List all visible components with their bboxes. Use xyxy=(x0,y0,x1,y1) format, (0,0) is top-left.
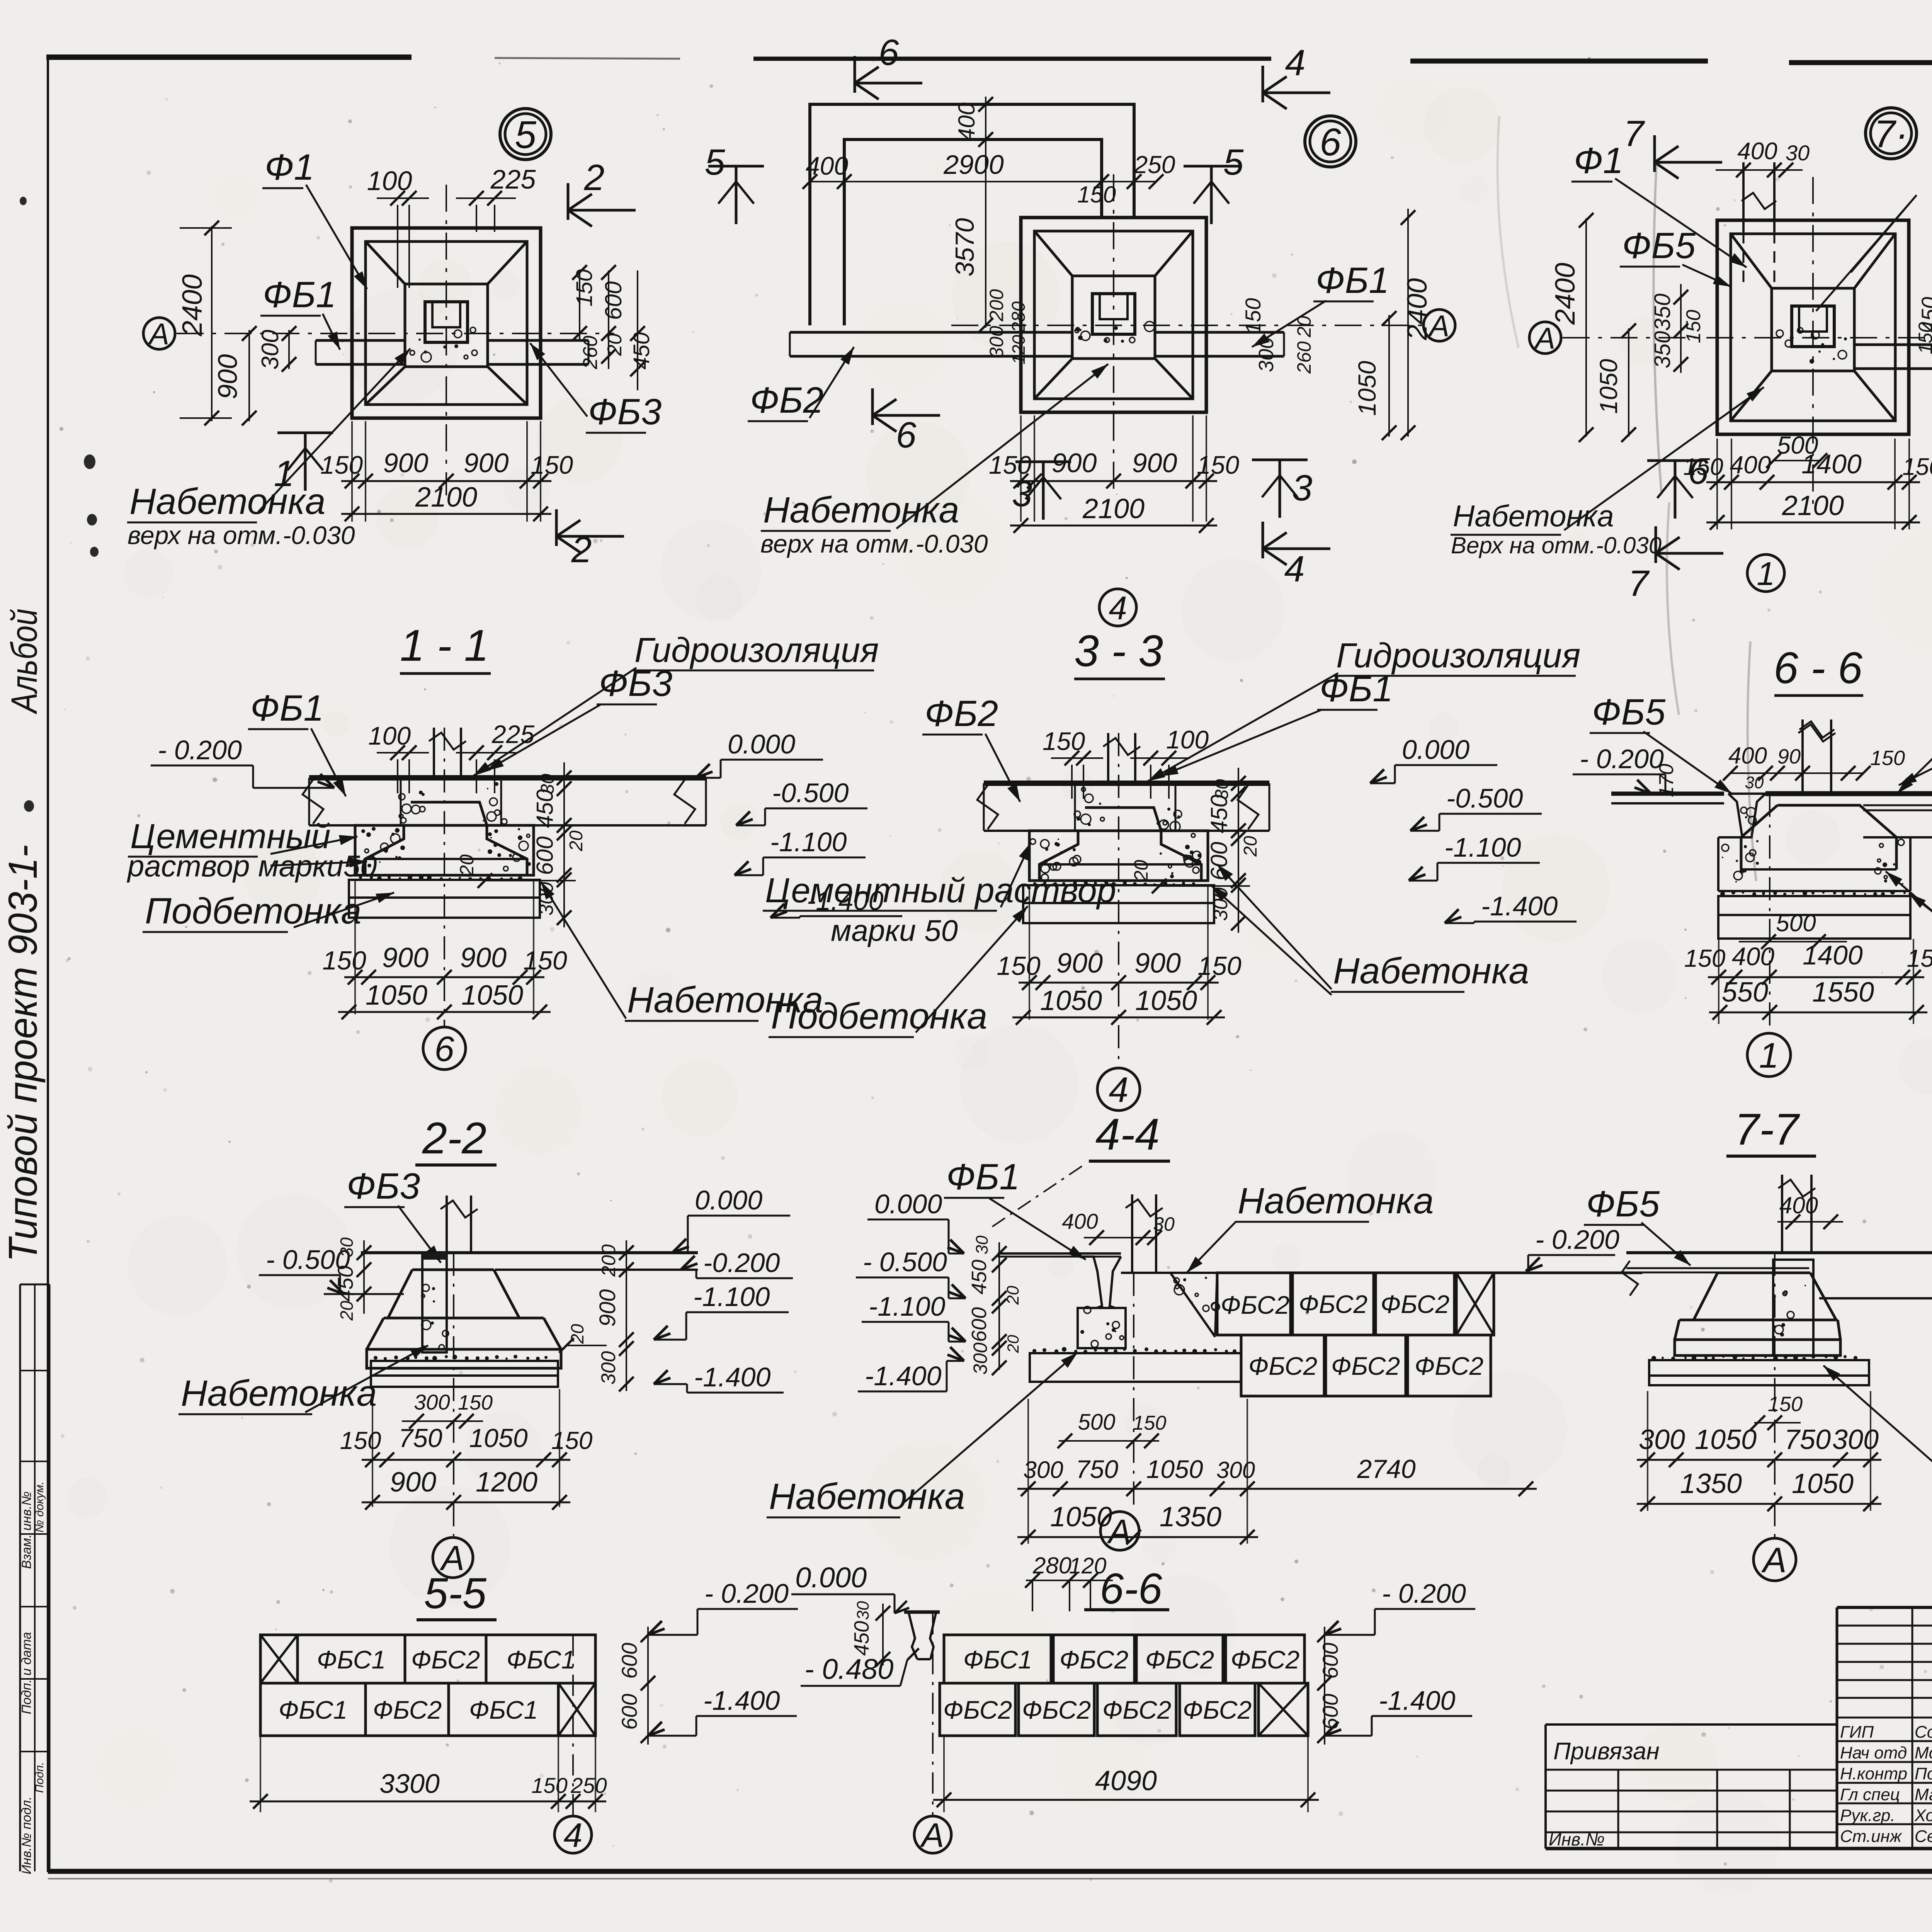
svg-text:6-6: 6-6 xyxy=(1100,1565,1163,1613)
svg-text:Подп.: Подп. xyxy=(33,1762,46,1793)
svg-text:400: 400 xyxy=(1732,942,1774,971)
svg-text:2400: 2400 xyxy=(1402,278,1433,340)
svg-text:Набетонка: Набетонка xyxy=(1453,499,1614,533)
svg-text:ФБС2: ФБС2 xyxy=(943,1696,1012,1724)
svg-text:150: 150 xyxy=(523,946,567,975)
svg-text:20: 20 xyxy=(1004,1335,1022,1353)
svg-text:150: 150 xyxy=(1241,298,1265,334)
svg-text:400: 400 xyxy=(1737,138,1777,165)
svg-text:-0.200: -0.200 xyxy=(703,1248,780,1278)
svg-text:30: 30 xyxy=(1786,141,1810,165)
svg-text:ФБС2: ФБС2 xyxy=(1415,1352,1483,1380)
svg-text:ФБС2: ФБС2 xyxy=(1022,1696,1091,1724)
svg-text:ФБ2: ФБ2 xyxy=(925,693,998,734)
svg-text:Набетонка: Набетонка xyxy=(763,490,959,531)
svg-text:6: 6 xyxy=(879,32,899,73)
svg-text:150: 150 xyxy=(1043,727,1085,755)
svg-text:6: 6 xyxy=(896,415,917,456)
svg-text:500: 500 xyxy=(1078,1410,1116,1435)
svg-text:Нач отд: Нач отд xyxy=(1840,1743,1907,1762)
svg-text:- 0.200: - 0.200 xyxy=(158,735,242,765)
svg-text:Подп. и дата: Подп. и дата xyxy=(19,1632,34,1714)
svg-text:2100: 2100 xyxy=(1782,490,1844,521)
svg-text:600: 600 xyxy=(600,281,626,320)
svg-text:900: 900 xyxy=(460,942,507,973)
svg-text:- 0.200: - 0.200 xyxy=(1382,1578,1466,1609)
svg-text:450: 450 xyxy=(968,1260,991,1294)
svg-text:2: 2 xyxy=(584,157,605,198)
svg-text:900: 900 xyxy=(1132,448,1177,478)
svg-text:-1.400: -1.400 xyxy=(694,1362,771,1392)
svg-text:6: 6 xyxy=(1320,121,1341,164)
svg-text:2: 2 xyxy=(571,529,592,570)
svg-text:20: 20 xyxy=(456,854,478,876)
svg-text:-1.100: -1.100 xyxy=(1444,832,1521,862)
svg-text:6 - 6: 6 - 6 xyxy=(1774,643,1862,693)
svg-text:1050: 1050 xyxy=(366,980,427,1011)
svg-text:500: 500 xyxy=(1776,910,1816,937)
svg-text:0.000: 0.000 xyxy=(695,1185,762,1215)
svg-text:Гидроизоляция: Гидроизоляция xyxy=(634,631,879,670)
svg-text:верх на отм.-0.030: верх на отм.-0.030 xyxy=(128,521,355,549)
svg-text:900: 900 xyxy=(383,448,429,478)
svg-text:ФБС2: ФБС2 xyxy=(1331,1352,1400,1380)
svg-text:Типовой проект 903-1-: Типовой проект 903-1- xyxy=(0,845,46,1262)
svg-text:ФБ5: ФБ5 xyxy=(1622,225,1696,266)
svg-text:0.000: 0.000 xyxy=(795,1561,867,1594)
svg-text:600: 600 xyxy=(1318,1643,1342,1679)
svg-text:2-2: 2-2 xyxy=(422,1114,486,1163)
svg-text:ФБС1: ФБС1 xyxy=(507,1645,575,1674)
svg-text:90: 90 xyxy=(1777,745,1801,768)
svg-text:450: 450 xyxy=(532,789,558,828)
svg-text:Холодова: Холодова xyxy=(1914,1806,1932,1825)
svg-text:3: 3 xyxy=(1292,468,1313,509)
svg-text:150: 150 xyxy=(320,451,363,479)
svg-text:Погорельск: Погорельск xyxy=(1915,1764,1932,1783)
svg-text:30: 30 xyxy=(337,1237,357,1257)
svg-text:150: 150 xyxy=(1133,1412,1167,1434)
svg-text:300: 300 xyxy=(986,326,1007,358)
svg-text:№ докум.: № докум. xyxy=(33,1481,46,1532)
svg-text:450: 450 xyxy=(629,332,654,370)
svg-text:А: А xyxy=(148,317,169,351)
svg-text:150: 150 xyxy=(1684,944,1726,972)
svg-text:5: 5 xyxy=(515,113,536,156)
svg-text:400: 400 xyxy=(1062,1209,1098,1233)
svg-text:600: 600 xyxy=(617,1694,641,1730)
svg-text:ФБС2: ФБС2 xyxy=(373,1696,442,1724)
svg-text:1350: 1350 xyxy=(1680,1468,1742,1499)
svg-text:- 0.200: - 0.200 xyxy=(1535,1225,1619,1255)
svg-text:260: 260 xyxy=(579,336,602,370)
svg-text:30: 30 xyxy=(854,1601,872,1620)
svg-text:20: 20 xyxy=(604,333,626,356)
svg-text:-0.500: -0.500 xyxy=(772,778,849,808)
svg-text:400: 400 xyxy=(1730,451,1771,479)
svg-text:0.000: 0.000 xyxy=(874,1189,942,1219)
svg-text:4: 4 xyxy=(1284,549,1305,590)
svg-text:Инв.№: Инв.№ xyxy=(1549,1829,1605,1849)
svg-text:250: 250 xyxy=(570,1773,607,1798)
svg-text:20: 20 xyxy=(566,830,587,852)
svg-text:750: 750 xyxy=(1784,1424,1831,1455)
svg-text:1050: 1050 xyxy=(1135,985,1197,1016)
svg-text:150: 150 xyxy=(531,1773,567,1798)
svg-text:Гидроизоляция: Гидроизоляция xyxy=(1336,636,1580,675)
svg-text:1050: 1050 xyxy=(1050,1502,1112,1532)
svg-text:20: 20 xyxy=(1240,836,1261,857)
svg-text:Инв.№ подл.: Инв.№ подл. xyxy=(19,1796,34,1874)
svg-text:300: 300 xyxy=(597,1351,620,1385)
svg-text:20: 20 xyxy=(337,1301,357,1321)
svg-text:150: 150 xyxy=(1197,951,1242,981)
svg-text:400: 400 xyxy=(954,102,980,141)
svg-text:ФБ3: ФБ3 xyxy=(347,1166,420,1207)
svg-text:ФБС2: ФБС2 xyxy=(411,1645,480,1674)
svg-text:ФБ1: ФБ1 xyxy=(946,1156,1020,1197)
svg-text:ФБС2: ФБС2 xyxy=(1145,1645,1214,1674)
svg-text:150: 150 xyxy=(531,451,573,479)
svg-text:150: 150 xyxy=(1915,322,1932,354)
svg-text:300: 300 xyxy=(1639,1424,1685,1455)
svg-text:5: 5 xyxy=(705,142,726,183)
svg-text:4: 4 xyxy=(564,1816,583,1854)
svg-text:550: 550 xyxy=(1722,977,1768,1008)
svg-text:150: 150 xyxy=(572,269,597,307)
svg-text:Альбой: Альбой xyxy=(4,609,45,714)
svg-text:2400: 2400 xyxy=(1550,263,1581,325)
svg-text:5: 5 xyxy=(1223,142,1244,183)
svg-text:ФБС2: ФБС2 xyxy=(1248,1352,1317,1380)
svg-text:150: 150 xyxy=(551,1427,593,1454)
svg-text:4: 4 xyxy=(1109,590,1127,627)
svg-text:150: 150 xyxy=(1870,747,1905,770)
svg-text:Верх на отм.-0.030: Верх на отм.-0.030 xyxy=(1451,532,1662,558)
svg-text:А: А xyxy=(920,1816,944,1854)
svg-text:225: 225 xyxy=(492,720,534,748)
svg-text:1050: 1050 xyxy=(1595,359,1622,414)
svg-text:ФБ1: ФБ1 xyxy=(263,274,336,315)
svg-text:900: 900 xyxy=(382,942,429,973)
svg-text:ФБС2: ФБС2 xyxy=(1381,1290,1449,1318)
svg-text:ФБС1: ФБС1 xyxy=(279,1696,347,1724)
svg-text:Привязан: Привязан xyxy=(1553,1738,1660,1765)
svg-text:ФБС1: ФБС1 xyxy=(317,1645,386,1674)
svg-text:1550: 1550 xyxy=(1812,977,1874,1008)
svg-text:150: 150 xyxy=(1902,454,1932,480)
svg-text:Взам. инв.№: Взам. инв.№ xyxy=(19,1492,34,1569)
svg-text:1050: 1050 xyxy=(469,1423,527,1453)
svg-text:900: 900 xyxy=(464,448,509,478)
svg-text:марки 50: марки 50 xyxy=(831,913,958,947)
svg-text:280: 280 xyxy=(1009,301,1029,333)
svg-text:200: 200 xyxy=(986,289,1007,322)
svg-text:600: 600 xyxy=(532,836,558,875)
svg-text:1400: 1400 xyxy=(1803,940,1863,970)
svg-text:1050: 1050 xyxy=(461,980,523,1011)
svg-text:120: 120 xyxy=(1009,335,1029,364)
svg-text:Набетонка: Набетонка xyxy=(1238,1180,1434,1221)
svg-text:раствор марки50: раствор марки50 xyxy=(127,849,377,883)
svg-text:450: 450 xyxy=(333,1265,357,1301)
svg-text:ФБС2: ФБС2 xyxy=(1231,1645,1299,1674)
svg-text:4-4: 4-4 xyxy=(1095,1110,1160,1159)
svg-text:1200: 1200 xyxy=(476,1467,537,1498)
svg-text:А: А xyxy=(1761,1541,1786,1580)
svg-text:Ст.инж: Ст.инж xyxy=(1840,1827,1902,1846)
svg-text:6: 6 xyxy=(434,1029,454,1069)
svg-text:Рук.гр.: Рук.гр. xyxy=(1840,1806,1895,1825)
svg-text:Ф1: Ф1 xyxy=(1574,140,1623,181)
svg-text:300: 300 xyxy=(1216,1457,1255,1483)
svg-text:ФБ5: ФБ5 xyxy=(1586,1184,1660,1225)
svg-text:- 0.200: - 0.200 xyxy=(704,1578,789,1609)
svg-text:1350: 1350 xyxy=(1160,1502,1221,1532)
svg-text:- 0.200: - 0.200 xyxy=(1580,744,1664,774)
svg-text:150: 150 xyxy=(1197,451,1239,479)
svg-text:100: 100 xyxy=(367,166,412,196)
svg-text:20: 20 xyxy=(1130,860,1152,882)
svg-text:900: 900 xyxy=(1134,948,1181,979)
svg-text:300: 300 xyxy=(1023,1457,1063,1483)
svg-text:1050: 1050 xyxy=(1040,985,1102,1016)
svg-text:-1.100: -1.100 xyxy=(770,827,847,857)
svg-text:7: 7 xyxy=(1628,563,1650,604)
svg-text:3570: 3570 xyxy=(950,218,980,276)
svg-text:-0.500: -0.500 xyxy=(1446,783,1523,813)
svg-text:600: 600 xyxy=(617,1643,641,1679)
svg-text:ФБС2: ФБС2 xyxy=(1102,1696,1171,1724)
svg-text:Набетонка: Набетонка xyxy=(181,1373,377,1414)
svg-text:30: 30 xyxy=(973,1235,992,1254)
svg-text:Марков: Марков xyxy=(1915,1785,1932,1804)
svg-text:2900: 2900 xyxy=(943,150,1004,180)
svg-text:150: 150 xyxy=(1682,310,1705,344)
svg-text:Сенягина: Сенягина xyxy=(1915,1827,1932,1846)
svg-text:А: А xyxy=(1107,1512,1131,1551)
svg-text:300: 300 xyxy=(1832,1424,1879,1455)
svg-text:200: 200 xyxy=(598,1244,619,1277)
svg-text:450: 450 xyxy=(850,1621,873,1656)
svg-text:-1.400: -1.400 xyxy=(1481,891,1558,921)
svg-text:верх на отм.-0.030: верх на отм.-0.030 xyxy=(760,529,988,558)
svg-text:300: 300 xyxy=(969,1342,991,1375)
svg-text:0.000: 0.000 xyxy=(1402,735,1469,765)
svg-text:ФБ1: ФБ1 xyxy=(250,688,324,729)
svg-text:2100: 2100 xyxy=(1082,493,1145,524)
svg-text:2100: 2100 xyxy=(415,482,477,513)
svg-text:1: 1 xyxy=(1759,1036,1779,1075)
svg-text:150: 150 xyxy=(1077,182,1116,207)
svg-text:250: 250 xyxy=(1134,151,1175,179)
svg-text:150: 150 xyxy=(1907,944,1932,972)
svg-text:300: 300 xyxy=(257,330,284,369)
svg-text:Набетонка: Набетонка xyxy=(1333,951,1529,992)
svg-text:30: 30 xyxy=(1153,1213,1175,1235)
svg-text:600: 600 xyxy=(968,1307,991,1342)
svg-text:ФБС2: ФБС2 xyxy=(1299,1290,1367,1318)
svg-text:1050: 1050 xyxy=(1792,1468,1854,1499)
svg-text:5-5: 5-5 xyxy=(424,1569,487,1617)
svg-text:750: 750 xyxy=(1076,1455,1118,1483)
svg-text:ФБС1: ФБС1 xyxy=(963,1645,1032,1674)
svg-text:-1.400: -1.400 xyxy=(703,1685,780,1716)
svg-text:4: 4 xyxy=(1285,43,1306,83)
svg-text:225: 225 xyxy=(490,164,536,194)
svg-text:300: 300 xyxy=(414,1390,450,1414)
svg-text:1: 1 xyxy=(1757,556,1775,592)
svg-text:Соловьев: Соловьев xyxy=(1915,1723,1932,1742)
svg-text:Морунов: Морунов xyxy=(1915,1743,1932,1762)
svg-text:2740: 2740 xyxy=(1357,1454,1415,1484)
svg-text:7-7: 7-7 xyxy=(1735,1105,1800,1154)
svg-text:Цементный раствор: Цементный раствор xyxy=(765,871,1116,910)
svg-text:450: 450 xyxy=(1206,794,1232,833)
svg-text:ФБ5: ФБ5 xyxy=(1592,692,1666,733)
svg-text:-1.100: -1.100 xyxy=(693,1282,770,1312)
svg-text:4: 4 xyxy=(1109,1070,1128,1110)
svg-text:1050: 1050 xyxy=(1695,1424,1757,1455)
svg-text:900: 900 xyxy=(213,354,243,400)
svg-text:3 - 3: 3 - 3 xyxy=(1074,626,1163,676)
svg-text:ФБС2: ФБС2 xyxy=(1183,1696,1252,1724)
svg-text:400: 400 xyxy=(806,151,848,180)
svg-text:100: 100 xyxy=(368,721,411,750)
svg-text:150: 150 xyxy=(340,1427,381,1454)
svg-text:900: 900 xyxy=(1056,948,1103,979)
svg-text:ФБС2: ФБС2 xyxy=(1221,1291,1289,1319)
svg-text:4090: 4090 xyxy=(1095,1765,1157,1796)
svg-text:600: 600 xyxy=(1318,1694,1342,1730)
svg-text:ФБ3: ФБ3 xyxy=(588,391,662,432)
svg-text:1400: 1400 xyxy=(1801,449,1862,479)
svg-text:ФБ1: ФБ1 xyxy=(1316,260,1389,301)
svg-text:150: 150 xyxy=(458,1391,493,1414)
svg-text:0.000: 0.000 xyxy=(728,729,795,759)
svg-text:-1.400: -1.400 xyxy=(865,1361,942,1391)
svg-text:-1.100: -1.100 xyxy=(869,1291,946,1321)
svg-text:1050: 1050 xyxy=(1146,1455,1203,1483)
svg-text:ФБС1: ФБС1 xyxy=(469,1696,538,1724)
svg-text:Подбетонка: Подбетонка xyxy=(145,891,361,932)
svg-text:150: 150 xyxy=(997,951,1041,981)
svg-text:7·: 7· xyxy=(1874,112,1908,156)
svg-text:170: 170 xyxy=(1655,764,1678,798)
svg-text:Гл спец: Гл спец xyxy=(1840,1785,1900,1804)
svg-text:-1.400: -1.400 xyxy=(1379,1685,1456,1716)
svg-text:900: 900 xyxy=(390,1467,436,1498)
svg-text:150: 150 xyxy=(322,946,366,975)
svg-text:7: 7 xyxy=(1624,113,1645,154)
svg-text:Набетонка: Набетонка xyxy=(129,481,326,522)
svg-text:ФБС2: ФБС2 xyxy=(1060,1645,1128,1674)
svg-text:2400: 2400 xyxy=(177,274,208,337)
svg-text:- 0.500: - 0.500 xyxy=(863,1247,947,1277)
svg-text:750: 750 xyxy=(398,1423,442,1453)
svg-text:1 - 1: 1 - 1 xyxy=(400,621,489,670)
svg-text:1050: 1050 xyxy=(1353,361,1381,416)
svg-text:3: 3 xyxy=(1012,473,1032,514)
svg-text:ГИП: ГИП xyxy=(1840,1723,1874,1742)
svg-text:3300: 3300 xyxy=(379,1769,440,1799)
svg-text:Подбетонка: Подбетонка xyxy=(771,996,987,1037)
svg-text:900: 900 xyxy=(595,1289,620,1327)
svg-text:Н.контр: Н.контр xyxy=(1840,1764,1907,1783)
svg-text:20: 20 xyxy=(1003,1286,1022,1305)
svg-text:150: 150 xyxy=(1683,454,1723,480)
svg-text:260: 260 xyxy=(1293,341,1315,374)
svg-text:150: 150 xyxy=(1768,1393,1803,1416)
svg-text:Набетонка: Набетонка xyxy=(769,1476,965,1517)
svg-text:Ф1: Ф1 xyxy=(265,147,314,188)
svg-text:- 0.480: - 0.480 xyxy=(804,1653,893,1685)
svg-text:А: А xyxy=(1534,321,1555,355)
